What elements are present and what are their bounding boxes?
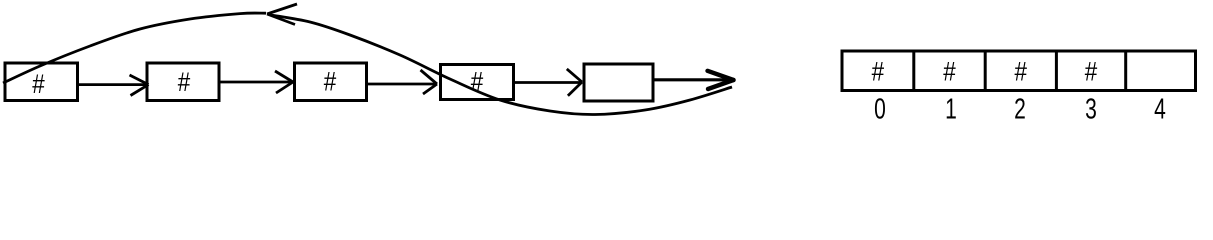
svg-text:4: 4 — [1154, 94, 1166, 126]
array cell divider 2 — [984, 53, 987, 90]
array cell divider 1 — [912, 53, 915, 90]
curved wire from node1 up over the list — [3, 13, 266, 83]
svg-text:#: # — [178, 67, 191, 97]
node box 5 (empty) — [584, 64, 653, 101]
wire arrow node4 to node5 — [513, 69, 582, 96]
array cell divider 3 — [1055, 53, 1058, 90]
svg-text:#: # — [324, 67, 337, 97]
svg-text:0: 0 — [874, 94, 886, 126]
array outer box — [842, 51, 1196, 91]
svg-text:#: # — [943, 57, 956, 87]
wire arrow node3 to node4 — [367, 70, 438, 94]
wire arrow node2 to node3 — [219, 71, 293, 93]
arrowhead (left-pointing) at top — [267, 4, 297, 25]
arrowhead tail (right) — [708, 71, 734, 89]
wire arrow node1 to node2 — [78, 75, 149, 96]
svg-text:2: 2 — [1014, 94, 1026, 126]
wire arrow node5 to tail — [653, 78, 730, 81]
node box 1 — [5, 63, 78, 101]
array cell divider 4 — [1124, 53, 1127, 90]
svg-text:#: # — [1015, 57, 1028, 87]
svg-text:3: 3 — [1085, 94, 1097, 126]
node box 2 — [147, 63, 219, 101]
svg-text:#: # — [1085, 57, 1098, 87]
node box 4 — [441, 65, 514, 100]
curved wire descending through node4 to the tail arrowhead — [271, 15, 732, 115]
node box 3 — [295, 63, 367, 101]
svg-text:1: 1 — [945, 94, 957, 126]
svg-text:#: # — [872, 57, 885, 87]
svg-text:#: # — [32, 69, 45, 99]
